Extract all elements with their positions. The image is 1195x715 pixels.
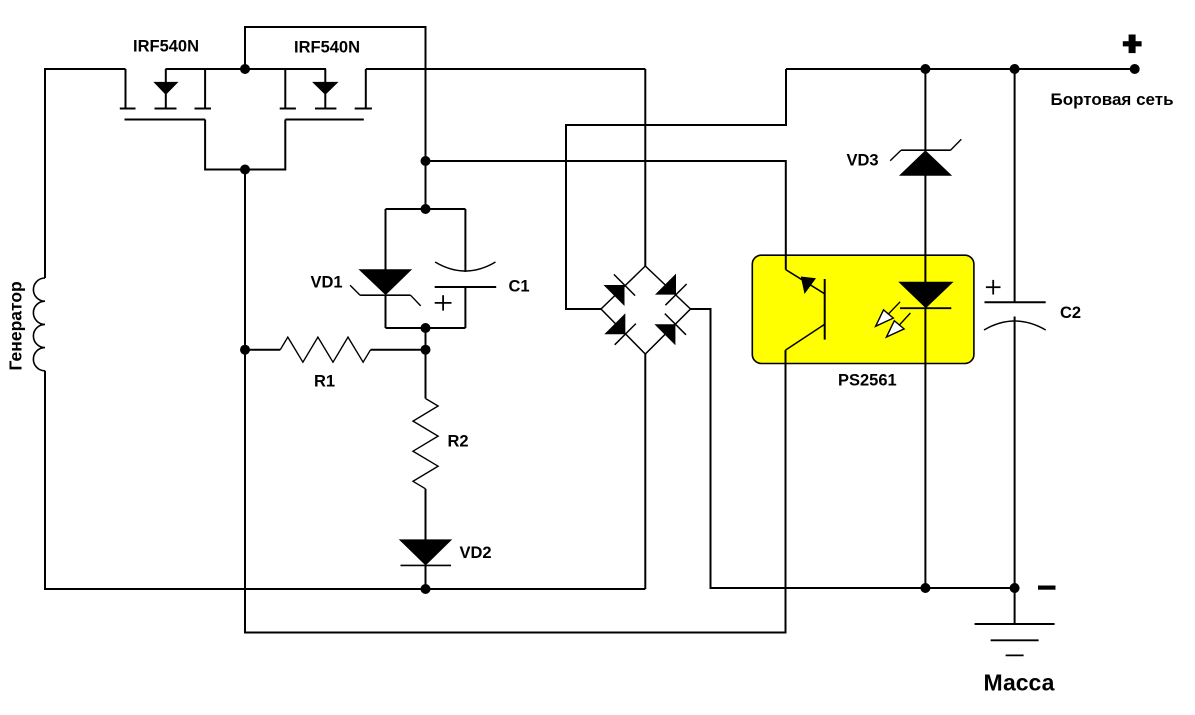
- svg-text:VD2: VD2: [460, 544, 492, 562]
- svg-text:PS2561: PS2561: [838, 372, 897, 390]
- transistor Q2 IRF540N: [245, 69, 372, 170]
- plus terminal mark: [1123, 35, 1142, 54]
- Q1 right terminal: [204, 69, 206, 108]
- Q2 left terminal: [284, 69, 286, 108]
- junction VD3 branch on plus rail: [920, 64, 930, 74]
- junction gate-drive node: [421, 156, 431, 166]
- ground symbol (Масса): [975, 588, 1055, 655]
- wire generator top to drain rail: [45, 69, 126, 278]
- Q1 left terminal: [125, 69, 127, 108]
- junction R1/R2 node: [421, 345, 431, 355]
- wire generator bottom to ground rail: [45, 371, 645, 589]
- C2 plus polarity mark: [986, 286, 1001, 288]
- wire bridge right vertex to minus rail: [691, 309, 1015, 588]
- junction plus terminal end: [1130, 64, 1140, 74]
- svg-text:VD1: VD1: [311, 274, 343, 292]
- optocoupler phototransistor emitter lead: [786, 324, 825, 350]
- optocoupler phototransistor arrow: [801, 277, 816, 295]
- optocoupler LED cathode bar: [900, 307, 951, 309]
- junction C2 branch on plus rail: [1010, 64, 1020, 74]
- resistor R2: [413, 350, 438, 540]
- junction LED branch on minus rail: [920, 583, 930, 593]
- resistor R1: [245, 337, 426, 362]
- wire VD3 top lead: [924, 69, 926, 150]
- wire LED cathode to minus rail: [924, 364, 926, 589]
- bridge diode D3 (left-bottom edge): [604, 313, 636, 345]
- transistor Q1 IRF540N: [120, 69, 245, 170]
- capacitor C2 (polarized): [984, 69, 1046, 588]
- junction VD1/C1 bottom node: [421, 323, 431, 333]
- optocoupler phototransistor collector lead: [786, 270, 825, 294]
- wire bridge top to drain rail: [644, 69, 646, 266]
- svg-text:C2: C2: [1060, 304, 1081, 322]
- generator coil (Генератор): [33, 278, 45, 371]
- wire bridge bottom to ground rail: [644, 354, 646, 589]
- Q1 gate electrode: [125, 119, 206, 121]
- optocoupler phototransistor base bar: [824, 279, 826, 340]
- C1 plus polarity mark: [435, 302, 452, 304]
- Q2 gate lead: [245, 120, 285, 170]
- wire gate-drive node to VD1/C1 top: [425, 161, 427, 209]
- Q1 body diode: [165, 69, 167, 83]
- bridge diode D2 (top-right edge): [655, 274, 687, 306]
- diode VD2: [400, 540, 451, 589]
- svg-text:Генератор: Генератор: [6, 281, 26, 370]
- wire gate-drive node to optocoupler collector: [426, 161, 786, 270]
- junction ground node on minus rail: [1010, 583, 1020, 593]
- wire drain rail segment (Q2 right terminal to bridge top): [366, 68, 646, 70]
- optocoupler LED cathode lead: [924, 308, 926, 363]
- svg-text:IRF540N: IRF540N: [294, 39, 360, 57]
- junction R1 left node: [240, 345, 250, 355]
- diode bridge frame: [601, 266, 691, 354]
- wire loop bottom to R1 node: [425, 328, 427, 350]
- svg-text:R2: R2: [448, 433, 469, 451]
- Q2 body diode: [324, 69, 326, 83]
- junction VD2 cathode to ground rail: [421, 584, 431, 594]
- Q2 gate electrode: [285, 119, 364, 121]
- junction gate node: [240, 165, 250, 175]
- bridge diode D4 (bottom-right edge): [654, 314, 686, 346]
- wire drain node up and over to gate-drive node: [245, 27, 426, 161]
- svg-text:IRF540N: IRF540N: [133, 38, 199, 56]
- minus terminal mark: [1038, 586, 1056, 590]
- wire gate node down to bottom return: [245, 170, 786, 633]
- wire VD1/C1 parallel loop top: [386, 208, 466, 210]
- svg-text:VD3: VD3: [847, 152, 879, 170]
- junction drain node: [240, 64, 250, 74]
- svg-text:C1: C1: [509, 278, 530, 296]
- svg-text:R1: R1: [314, 373, 335, 391]
- optocoupler LED anode lead: [924, 255, 926, 282]
- junction VD1/C1 top node: [421, 204, 431, 214]
- optocoupler LED: [900, 282, 953, 307]
- optocoupler light arrow 2: [886, 313, 910, 337]
- svg-text:Бортовая сеть: Бортовая сеть: [1051, 90, 1174, 109]
- diode VD1 (zener): [350, 209, 421, 328]
- wire drain rail segment (Q1 body diode to Q2 body diode): [166, 68, 327, 70]
- optocoupler light arrow 1: [876, 302, 901, 327]
- diode VD3 (zener): [890, 139, 961, 255]
- wire VD1/C1 parallel loop bottom: [386, 327, 466, 329]
- optocoupler U1 PS2561 body: [752, 255, 974, 363]
- bridge diode D1 (left-top edge): [604, 274, 636, 306]
- Q1 gate lead: [205, 120, 245, 170]
- wire plus rail down and over to bridge left vertex: [566, 69, 786, 309]
- capacitor C1 (polarized): [435, 209, 497, 328]
- Q2 right terminal: [365, 69, 367, 108]
- svg-text:Масса: Масса: [984, 670, 1055, 696]
- wire plus rail (Бортовая сеть): [786, 68, 1135, 70]
